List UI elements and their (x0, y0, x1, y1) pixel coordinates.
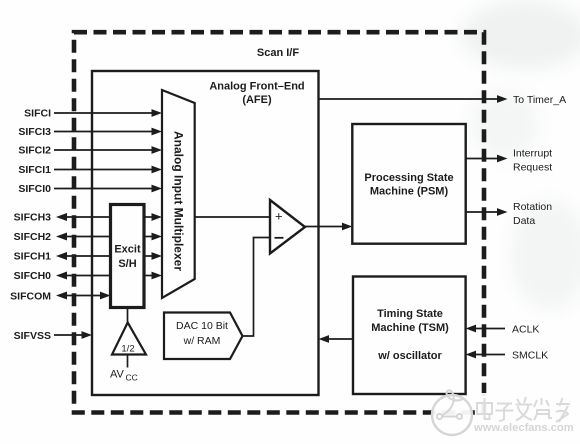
svg-text:w/ RAM: w/ RAM (183, 335, 221, 347)
svg-text:(AFE): (AFE) (242, 94, 272, 106)
svg-text:1/2: 1/2 (121, 344, 134, 355)
svg-text:SIFCH0: SIFCH0 (14, 270, 52, 282)
svg-text:AV: AV (110, 369, 125, 381)
wire ACLK to TSM (474, 328, 505, 330)
wire SIFCI2 to multiplexer (54, 149, 154, 151)
svg-text:SIFCI: SIFCI (24, 108, 51, 120)
svg-text:SIFCI1: SIFCI1 (18, 164, 51, 176)
wire SIFCOM to Excit S/H (bidirectional) (64, 295, 102, 297)
wire Excit S/H to multiplexer ch3 (144, 216, 154, 218)
wire Excit S/H to buffer (127, 308, 129, 324)
wire buffer to AVCC (127, 355, 129, 368)
svg-text:Timing State: Timing State (377, 308, 443, 320)
block PSM (Processing State Machine) (352, 124, 465, 244)
reference buffer 1/2 (112, 323, 146, 355)
wire DAC to comparator inverting input (243, 238, 271, 337)
wire SIFCH0 to Excit S/H (64, 275, 111, 277)
svg-text:ACLK: ACLK (512, 324, 539, 336)
wire SIFCI3 to multiplexer (54, 131, 154, 133)
svg-text:Analog Input Multiplexer: Analog Input Multiplexer (172, 131, 186, 271)
svg-text:CC: CC (126, 373, 138, 383)
svg-text:Scan I/F: Scan I/F (257, 47, 299, 59)
svg-text:www.elecfans.com: www.elecfans.com (473, 422, 574, 434)
svg-text:SIFCI3: SIFCI3 (18, 126, 51, 138)
svg-text:Interrupt: Interrupt (513, 148, 552, 160)
wire comparator output to PSM (305, 226, 344, 228)
wire PSM to Rotation Data (466, 211, 499, 213)
block AFE (Analog Front-End) (92, 71, 319, 395)
watermark logo elecfans (477, 393, 572, 438)
wire SIFCH2 to Excit S/H (64, 236, 111, 238)
svg-text:SIFCI2: SIFCI2 (18, 145, 51, 157)
wire Excit S/H to multiplexer ch0 (144, 275, 154, 277)
wire AFE to Timer_A (319, 98, 500, 100)
svg-text:SIFCOM: SIFCOM (10, 291, 51, 303)
svg-text:SIFVSS: SIFVSS (14, 330, 51, 342)
svg-text:+: + (275, 209, 283, 224)
wire SIFVSS to AFE (54, 334, 84, 336)
wire TSM to AFE (327, 338, 353, 340)
svg-text:Processing State: Processing State (364, 172, 453, 184)
svg-text:SIFCH3: SIFCH3 (14, 212, 52, 224)
svg-text:SMCLK: SMCLK (512, 350, 548, 362)
svg-text:To Timer_A: To Timer_A (513, 94, 566, 106)
svg-text:Rotation: Rotation (513, 201, 552, 213)
svg-text:SIFCH2: SIFCH2 (14, 231, 52, 243)
svg-text:Data: Data (513, 215, 535, 227)
wire SMCLK to TSM (474, 354, 505, 356)
svg-text:Request: Request (513, 162, 552, 174)
excitation sample/hold block (111, 205, 145, 308)
scan interface dashed boundary (74, 32, 484, 412)
svg-text:SIFCI0: SIFCI0 (18, 183, 51, 195)
wire multiplexer output to comparator (195, 216, 270, 218)
analog input multiplexer (162, 90, 195, 298)
wire SIFCI1 to multiplexer (54, 169, 154, 171)
wire SIFCI to multiplexer (54, 112, 154, 114)
svg-text:Excit: Excit (114, 244, 141, 256)
wire SIFCH1 to Excit S/H (64, 255, 111, 257)
wire SIFCI0 to multiplexer (54, 188, 154, 190)
svg-text:Machine (PSM): Machine (PSM) (370, 186, 449, 198)
wire SIFCH3 to Excit S/H (64, 216, 111, 218)
svg-text:SIFCH1: SIFCH1 (14, 251, 52, 263)
svg-text:w/ oscillator: w/ oscillator (377, 350, 442, 362)
wire Excit S/H to multiplexer ch1 (144, 255, 154, 257)
comparator (270, 200, 305, 254)
svg-text:Machine (TSM): Machine (TSM) (371, 322, 449, 334)
svg-text:DAC 10 Bit: DAC 10 Bit (176, 320, 228, 332)
DAC block (164, 313, 243, 360)
comparator inverting input label - (275, 237, 284, 239)
block TSM (Timing State Machine) (353, 277, 466, 395)
svg-text:S/H: S/H (118, 258, 136, 270)
wire PSM to Interrupt Request (466, 158, 499, 160)
wire Excit S/H to multiplexer ch2 (144, 236, 154, 238)
svg-text:Analog Front–End: Analog Front–End (209, 81, 304, 93)
